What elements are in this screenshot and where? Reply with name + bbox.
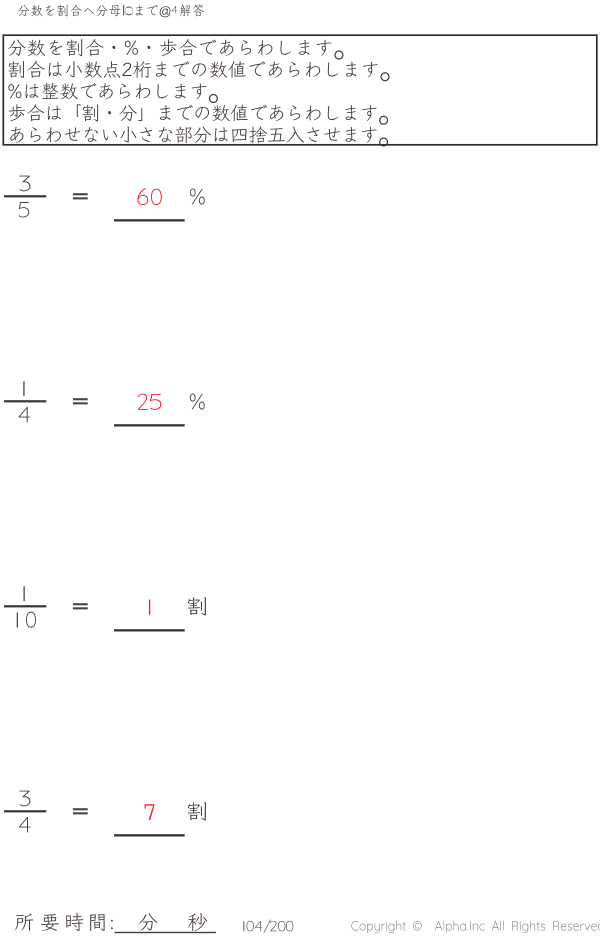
copyright (351, 921, 600, 934)
problem 3 fraction (23, 586, 24, 601)
instruction text line 5 (10, 126, 388, 146)
problem 2 fraction (23, 381, 24, 396)
problem 1 answer (137, 188, 148, 205)
problem 3 unit (188, 597, 206, 615)
problem 3 answer (149, 599, 150, 614)
footer min (139, 913, 158, 930)
instruction text line 4 (9, 104, 389, 124)
problem 4 answer (145, 804, 155, 820)
footer underline (115, 932, 217, 933)
instruction text line 3 (8, 83, 218, 103)
instruction text line 2 (9, 61, 390, 81)
problem 2 equals (73, 398, 88, 400)
title (18, 5, 121, 17)
problem 1 equals (73, 193, 88, 195)
page number (242, 921, 245, 931)
problem 3 equals (73, 603, 88, 605)
problem 4 fraction (19, 791, 30, 807)
problem 2 answer (138, 394, 148, 410)
instruction text line 1 (8, 39, 343, 59)
problem 4 unit (188, 802, 206, 820)
problem 4 equals (73, 808, 88, 810)
footer sec (188, 913, 207, 931)
problem 1 fraction (19, 176, 30, 192)
instruction box border (3, 35, 597, 145)
problem 1 unit (190, 189, 205, 205)
footer time label (15, 913, 33, 930)
problem 2 unit (190, 394, 205, 410)
